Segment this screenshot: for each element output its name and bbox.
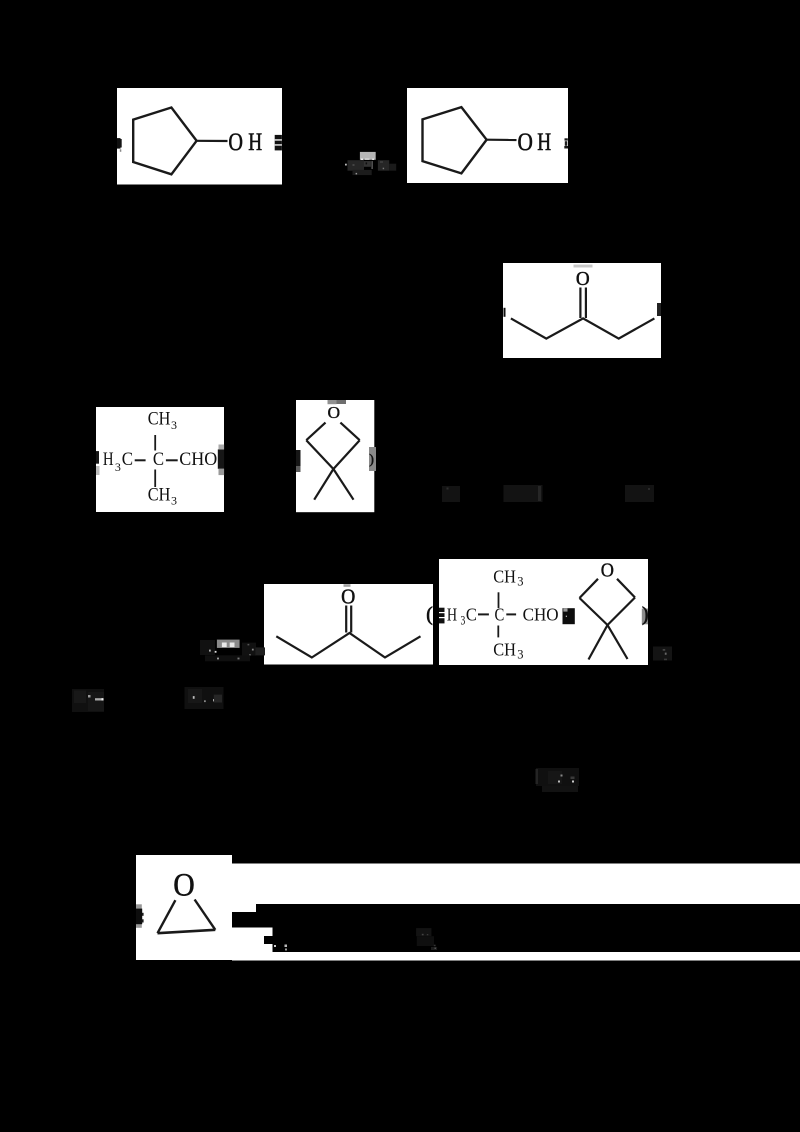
svg-text:3: 3 <box>115 460 121 474</box>
C=O double bond B3 <box>579 288 581 319</box>
svg-text:H: H <box>248 129 262 156</box>
svg-text:CHO: CHO <box>523 605 559 625</box>
gray highlight at B5 right edge <box>369 447 376 471</box>
svg-text:H: H <box>103 450 114 470</box>
box B5 (3,3-dimethyloxetane image) <box>296 400 374 512</box>
cyclopentane ring B2 <box>423 107 487 173</box>
bond to OH B2 <box>487 139 517 142</box>
box B1 (cyclopentanol image) <box>117 88 282 185</box>
svg-text:): ) <box>369 452 374 467</box>
svg-text:): ) <box>642 605 649 626</box>
gray highlight at B7 right edge <box>642 609 648 625</box>
svg-text:(: ( <box>426 605 433 626</box>
carbon chain B6 <box>276 633 420 658</box>
svg-text:3: 3 <box>461 613 466 627</box>
svg-text:CH: CH <box>148 485 171 505</box>
svg-text:H: H <box>537 129 551 156</box>
faint text blob g1 left <box>348 160 365 171</box>
clipped marks at B3 edges <box>504 308 506 317</box>
faint text blob g1 right <box>378 160 389 171</box>
white specks near patch <box>274 945 276 947</box>
svg-text:CH: CH <box>148 410 171 430</box>
faint mid glyph g1 <box>364 161 371 167</box>
clipped glyph at B5 left edge <box>296 450 301 466</box>
faint text g8 <box>72 689 104 712</box>
gray smudge at B6 top edge <box>344 584 351 587</box>
faint vertical stroke g1 <box>371 161 373 169</box>
faint text g9 <box>185 687 224 709</box>
bond B7 bottom <box>497 626 499 638</box>
svg-text:3: 3 <box>171 418 177 432</box>
faint text g10 <box>536 768 579 786</box>
svg-text:3: 3 <box>171 493 177 507</box>
svg-text:C: C <box>153 450 164 470</box>
svg-text:O: O <box>341 585 355 608</box>
white patch below band <box>232 928 273 961</box>
svg-text:CHO: CHO <box>179 450 217 470</box>
svg-text:CH: CH <box>493 639 516 659</box>
box B3 (3-pentanone image) <box>503 263 661 358</box>
clipped glyph at B2 right edge <box>565 138 568 140</box>
faint gray highlight g1 between B1 and B2 <box>360 152 376 160</box>
clipped glyph at B4 left edge <box>96 451 99 464</box>
white step under band 1 <box>232 904 256 912</box>
svg-text:CH: CH <box>493 566 516 586</box>
white text band 2 <box>232 952 800 961</box>
svg-text:H: H <box>447 605 457 625</box>
white text band 1 <box>232 864 800 905</box>
svg-text:3: 3 <box>517 648 523 662</box>
svg-text:O: O <box>328 403 341 422</box>
box B8 (ethylene oxide image) <box>136 855 232 960</box>
C=O double bond B6 <box>345 606 347 633</box>
gem-dimethyl bonds B7 <box>589 625 608 660</box>
clipped glyph at B1 right edge <box>275 135 282 151</box>
oxetane ring B5 <box>306 423 325 441</box>
clipped glyph at B7 left edge <box>439 608 445 624</box>
black notch on white patch <box>264 936 273 944</box>
box B7 (pivaldehyde + oxetane image) <box>439 559 648 665</box>
svg-text:O: O <box>173 868 195 904</box>
box B2 (cyclopentanol image) <box>407 88 568 183</box>
clipped glyph at B1 left edge <box>117 138 121 149</box>
bond to OH B1 <box>197 140 228 142</box>
svg-text:3: 3 <box>517 575 523 589</box>
faint text row g6 <box>442 486 460 502</box>
oxetane ring B7 <box>580 579 599 598</box>
svg-text:C: C <box>495 605 505 625</box>
svg-text:O: O <box>228 129 243 156</box>
svg-text:O: O <box>601 560 614 582</box>
svg-text:C: C <box>122 450 133 470</box>
bold CJK glyph between formulas B7 <box>563 608 575 624</box>
cyclopentane ring B1 <box>133 108 196 175</box>
clipped glyph at B4 right edge <box>218 449 224 468</box>
gray smudge at B3 top edge <box>574 265 593 268</box>
faint glyph g11 <box>416 928 431 936</box>
bond B4 top <box>154 435 156 451</box>
faint text g7 with highlight <box>200 640 215 655</box>
gray mark at B5 top edge <box>328 400 337 404</box>
carbon chain B3 <box>511 318 655 338</box>
faint 3 glyph right of B7 <box>653 647 672 661</box>
bond B4 bottom <box>154 470 156 488</box>
svg-text:C: C <box>466 605 477 625</box>
epoxide triangle B8 <box>158 900 176 933</box>
clipped glyph at B8 left edge <box>136 904 142 928</box>
bond B7 top <box>498 592 500 608</box>
box B4 (pivaldehyde image) <box>96 407 224 512</box>
svg-text:O: O <box>518 129 533 156</box>
gem-dimethyl bonds B5 <box>314 469 333 500</box>
svg-text:O: O <box>576 268 590 290</box>
box B6 (3-pentanone small image) <box>264 584 433 665</box>
